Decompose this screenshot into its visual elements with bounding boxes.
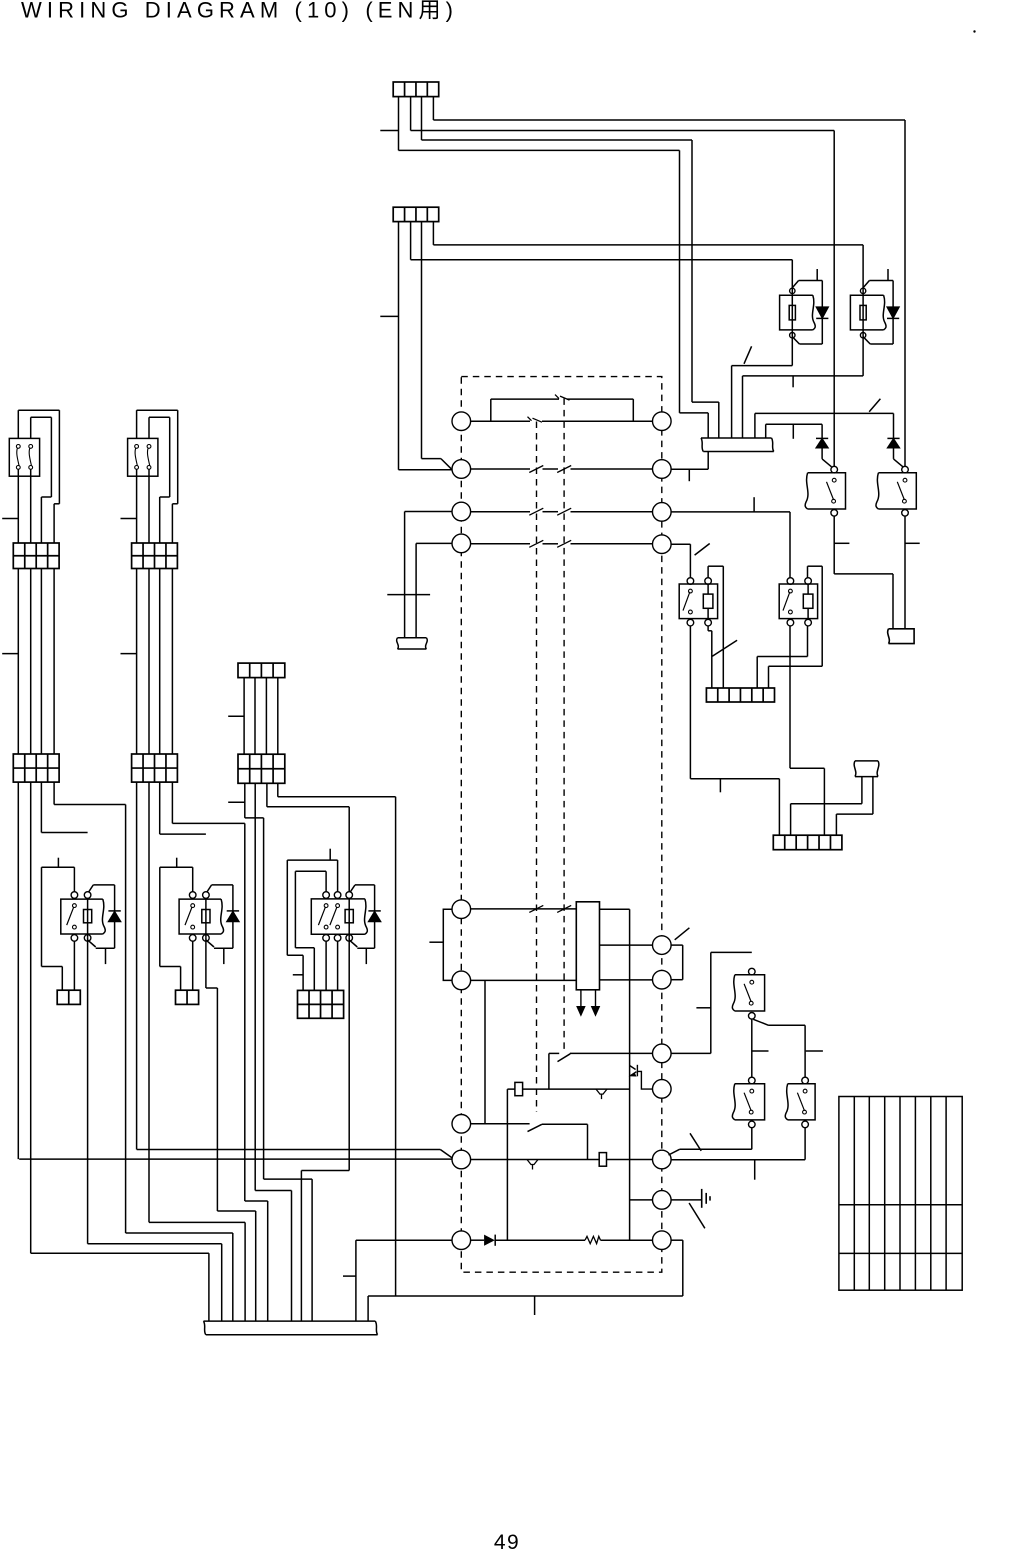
wire CN-A pin1 to bus (680, 412, 709, 414)
tick on K5 feed (806, 1050, 823, 1052)
wire row2 c (571, 468, 653, 470)
wire flag F2 left to CN-E (790, 804, 792, 836)
wire V1 to node P10R (630, 1199, 653, 1201)
switch TS2 contact arm (147, 448, 149, 465)
stray dot (973, 30, 975, 32)
node P3R (653, 503, 672, 522)
wire relay KB2 diode hook top (207, 885, 212, 892)
wire relay RB out down (862, 339, 864, 376)
wire g3 pin4 run (278, 796, 396, 798)
switch K3 bottom terminal (749, 1013, 756, 1020)
wire relay KB2 switch out (192, 941, 194, 990)
tick left of group2 lower (121, 653, 137, 655)
wire group2 hook B left (148, 417, 150, 438)
switch K3 lower contact (749, 1001, 753, 1005)
wire CN-B pin4 down to relay RB (862, 245, 864, 288)
wire group2 pin1 feed diagonal (440, 1150, 452, 1159)
wire flag F2 left lead (861, 777, 863, 804)
relay RC upper contact (689, 589, 693, 593)
relay KB2 lower contact (191, 925, 195, 929)
wire relay KB2 diode hook bottom (206, 940, 214, 947)
diode D1 cathode bar (816, 437, 828, 439)
thermal switch TS1 body (9, 438, 39, 476)
wire group1 hook A right (58, 410, 60, 504)
wire g2 pin3 drop (159, 782, 161, 834)
node P8R (653, 1080, 672, 1099)
wire CN-A pin4 run (433, 119, 905, 121)
switch K2 contact arm (897, 482, 904, 500)
wire relay RC switch out run (690, 778, 779, 780)
wire CN-A pin3 down (691, 140, 693, 402)
wire base drive (507, 1088, 629, 1090)
wire row4 a (471, 543, 530, 545)
bus bar B2 (204, 1321, 378, 1335)
wire KB3 loop1 bottom (295, 947, 314, 949)
diode D-RB (887, 307, 899, 318)
relay KB2 coil through lead (205, 898, 207, 938)
wire row3 c (571, 511, 653, 513)
relay KB3 coil through lead (348, 898, 350, 938)
wire KB3 diode hook bottom (349, 940, 357, 947)
switch TS2 contact top (135, 445, 139, 449)
wire link P5R-P6R (682, 945, 684, 980)
relay RC body (679, 584, 717, 619)
diode D-KB2 cathode bar (227, 910, 239, 912)
wire group2 hook B top (149, 416, 170, 418)
wire relay RC coil loop run (708, 565, 723, 567)
relay KB3 switch2 bottom terminal (334, 935, 341, 942)
diode D-KB2 (227, 911, 239, 921)
relay RA bottom terminal (790, 333, 795, 338)
wire g1 pin3 to coil (41, 832, 87, 834)
wire relay RB top hook (869, 280, 893, 282)
tick across flag F3 leads (387, 594, 430, 596)
wire g3 pin1 long drop (263, 818, 265, 1179)
tick at CN-A pin1 (380, 130, 398, 132)
wire relay RA out down (791, 339, 793, 366)
diode D2 cathode bar (887, 437, 899, 439)
tick above relay KB1 (57, 858, 59, 868)
switch TS2 contact bottom (147, 466, 151, 470)
wire node P10R to ground (671, 1199, 702, 1201)
wire relay RC coil loop up (707, 566, 709, 578)
wire KB3 loop1 up (325, 871, 327, 891)
thermal switch TS2 body (128, 438, 158, 476)
wire group1 hook A left (17, 410, 19, 438)
wire group1 mid drop (17, 569, 19, 755)
wire g3 mid drop (254, 678, 256, 755)
wire group2 hook A jog (172, 503, 177, 505)
wire vertical V1 (629, 909, 631, 1240)
switch K5 upper contact (803, 1089, 807, 1093)
wire relay RC feed down (689, 544, 691, 578)
wire KB3 loop1 left (294, 871, 296, 948)
relay KB2 coil (202, 910, 210, 923)
switch K5 top terminal (802, 1077, 809, 1084)
wire relay KB2 loop bottom (160, 966, 181, 968)
wire flag F2 right lead (872, 777, 874, 815)
tick on switch K2 out (905, 542, 920, 544)
connector CN-KB3 (298, 990, 344, 1018)
wire flag F2 right run (836, 813, 873, 815)
wire KB2 coil step (217, 1210, 255, 1212)
wire g3 pin1 jog (245, 817, 264, 819)
relay RD coil top lead (807, 584, 809, 594)
node P9L (452, 1231, 471, 1250)
wire KB1 coil down (87, 938, 89, 1244)
wire CN-A pin3 to bus (692, 401, 719, 403)
wire relay RC switch out (689, 626, 691, 779)
wire group1 mid drop (30, 569, 32, 755)
node P5R (653, 936, 672, 955)
wire g1 pin2 long drop (30, 782, 32, 1253)
node P2L (452, 460, 471, 479)
wire g1 pin1 long drop (17, 782, 19, 1159)
wire relay RD coil to CN-D (768, 666, 770, 688)
tick above relay RA diode (816, 269, 818, 281)
switch K5 bottom terminal (802, 1121, 809, 1128)
wire P5R stub (671, 944, 683, 946)
diode D2 lead (893, 448, 895, 459)
connector CN-2a (132, 543, 178, 569)
node P4R (653, 535, 672, 554)
wire to switch K3 riser (710, 952, 712, 1053)
relay RB coil (860, 305, 866, 320)
diode D-KB1 cathode bar (108, 910, 120, 912)
tick below bus output (688, 469, 690, 481)
bus bar B1 (701, 438, 774, 452)
stub on bracket (429, 941, 443, 943)
switch SW1a break (528, 417, 543, 423)
wire CN-A pin1 run (399, 149, 680, 151)
diode D-KB3 lead (374, 885, 376, 948)
switch mark on P5L wire 2 (557, 905, 571, 912)
tick below RC out run (719, 779, 721, 793)
wire g3 mid drop (265, 678, 267, 755)
wire KB3 loop1 top (295, 870, 326, 872)
tick on switch K1 out (834, 542, 849, 544)
wire g3 pin3 drop (266, 783, 268, 807)
wire diode D1 diagonal (822, 459, 831, 467)
wire relay KB1 loop bottom (42, 966, 63, 968)
relay KB3 contact1 upper (324, 904, 328, 908)
wire row4 c (571, 543, 653, 545)
connector flag F1 (888, 629, 914, 644)
wire row1 loop right (632, 399, 634, 421)
wire g3 pin2 step (255, 1190, 291, 1192)
relay RA coil (789, 305, 795, 320)
tick below relay RB out (792, 376, 794, 387)
relay RC coil top terminal (705, 578, 712, 585)
relay KB3 contact2 upper (336, 904, 340, 908)
wire resistor to node P11R (601, 1239, 653, 1241)
wire bus to diode D1 (766, 423, 822, 425)
wire K4 out (751, 1128, 753, 1150)
arrow heater lead 1 (577, 990, 585, 1016)
wire switch SW5 right (570, 1052, 653, 1054)
wire KB3 coil to bus (300, 1171, 302, 1322)
wire block to node P6R (600, 979, 653, 981)
relay KB3 switch1 bottom terminal (323, 935, 330, 942)
diode D1 lead (821, 448, 823, 459)
connector mark on base wire (596, 1089, 607, 1094)
relay KB3 body (311, 899, 367, 934)
relay RD switch bottom terminal (787, 619, 794, 626)
wire P11R down (682, 1240, 684, 1296)
diode D-RB lead (892, 281, 894, 345)
diode D-RA lead (821, 281, 823, 345)
switch K5 lower contact (803, 1110, 807, 1114)
tick at CN-B pin1 (380, 315, 398, 317)
wire group1 hook A jog (54, 503, 59, 505)
wire group2 pin1 feed (137, 1149, 441, 1151)
wire CN-A pin2 down to switch K1 (833, 131, 835, 467)
wire g2 pin2 to bus (244, 1222, 246, 1321)
wire bus entry 3 (731, 366, 733, 439)
relay KB1 coil through lead (87, 898, 89, 938)
switch K2 upper contact (903, 478, 907, 482)
wire g1 pin4 long drop (125, 805, 127, 1234)
connector CN-1a (13, 543, 59, 569)
wire relay RD coil loop up (807, 566, 809, 578)
wire row1 loop top left (491, 398, 559, 400)
wire switch K1 out run (834, 573, 893, 575)
switch row2 contact 2 (557, 466, 571, 473)
wire row1 right (542, 420, 653, 422)
wire group2 hook B right (169, 417, 171, 497)
relay RC lower contact (689, 610, 693, 614)
relay RD upper contact (789, 589, 793, 593)
wire CN-A pin2 run (411, 130, 835, 132)
wire relay RC coil out jog (708, 630, 712, 632)
switch TS1 contact top (29, 445, 33, 449)
wire CN-B pin2 run (411, 259, 793, 261)
wire relay RB bottom hook diagonal (863, 337, 870, 344)
wire g1 pin4 drop (53, 782, 55, 804)
wire group1 hook A top (18, 409, 59, 411)
wire K3 to K4 (751, 1019, 753, 1077)
tick above KB3 (329, 849, 331, 860)
wire K5 out run (671, 1159, 805, 1161)
wire P8R diagonal (669, 1149, 680, 1155)
wire relay RD switch out (789, 626, 791, 768)
wire relay KB1 loop down (61, 967, 63, 991)
node P8L (452, 1150, 471, 1169)
switch row2 contact 1 (529, 466, 543, 473)
wire KB1 coil step (88, 1243, 222, 1245)
wire P9L to bus (355, 1240, 357, 1321)
connector CN-E (773, 835, 842, 850)
switch K2 top terminal (902, 466, 909, 473)
switch K2 bottom terminal (902, 510, 909, 517)
switch K4 bottom terminal (749, 1121, 756, 1128)
relay KB1 body (61, 899, 105, 934)
wire KB3 coil step (301, 1170, 349, 1172)
switch K3 top terminal (749, 968, 756, 975)
relay KB1 upper contact (73, 904, 77, 908)
wire g1 pin2 to bus (208, 1253, 210, 1321)
wire K3 branch run (769, 1024, 806, 1026)
wire group2 hook A left (136, 410, 138, 438)
relay KB3 coil (345, 910, 353, 923)
wire diode D1 feed down (821, 424, 823, 438)
switch mark on P5L wire 1 (529, 905, 543, 912)
wire relay KB2 loop top (160, 866, 193, 868)
node P2R (653, 460, 672, 479)
wire group2 hook B jog (160, 496, 170, 498)
wire diode D2 feed down (893, 413, 895, 438)
switch row3 contact 1 (529, 508, 543, 515)
relay KB3 contact2 lower (336, 925, 340, 929)
wire row1 loop left (490, 399, 492, 421)
relay RC coil bottom lead (707, 608, 709, 618)
relay RD coil (803, 594, 813, 608)
switch K2 lower contact (903, 499, 907, 503)
wire g2 pin2 long drop (148, 782, 150, 1222)
switch K1 top terminal (831, 466, 838, 473)
wire row1 left (471, 420, 530, 422)
wire switch SW5 left (549, 1052, 559, 1054)
diode D-KB1 (108, 911, 120, 921)
wire CN-A pin2 drop (410, 97, 412, 131)
relay RD coil bottom terminal (805, 619, 812, 626)
relay KB2 switch bottom terminal (189, 935, 196, 942)
mechanical link bar 1 (536, 422, 538, 1113)
wire KB1 coil to bus (221, 1244, 223, 1321)
relay KB2 switch top terminal (189, 892, 196, 899)
wire relay KB1 loop up (73, 867, 75, 892)
wire bus entry 5 (754, 413, 756, 438)
switch K1 upper contact (832, 478, 836, 482)
wire relay RA out run (732, 365, 793, 367)
wire row3 b (543, 511, 559, 513)
tick left of group3 (228, 715, 244, 717)
wire node P9L to diode D3 (471, 1239, 485, 1241)
relay KB2 body (179, 899, 223, 934)
wire KB3 coil down (348, 938, 350, 1171)
tick below K5 out run (754, 1160, 756, 1180)
wire group1 hook B right (50, 417, 52, 497)
wire bus entry 2 (718, 402, 720, 438)
wire bus entry 6 (765, 424, 767, 438)
arrow heater lead 2 (592, 990, 600, 1016)
wire P5L to block (471, 908, 577, 910)
leader slash on D2 feed (869, 399, 880, 412)
wire group1 hook A down (53, 504, 55, 543)
node P10R (653, 1191, 672, 1210)
wire relay RA bottom hook diagonal (792, 337, 799, 344)
wire switch feed riser (548, 1053, 550, 1089)
wire switch K1 out (833, 516, 835, 574)
wire g3 pin3 to coil (267, 806, 349, 808)
resistor R1 (585, 1236, 601, 1243)
switch TS2 contact bottom (135, 466, 139, 470)
wire g3 pin4 long drop (395, 797, 397, 1296)
leader slash at node P5R (675, 928, 690, 940)
wire switch TS1 drop (17, 469, 19, 543)
wire group2 mid drop (136, 569, 138, 755)
wire relay KB1 loop top (42, 866, 75, 868)
relay RB top terminal (860, 288, 865, 293)
wire row2 a (471, 468, 530, 470)
wire relay KB1 diode hook bottom (88, 940, 96, 947)
connector flag F2 (854, 761, 879, 777)
switch TS2 contact arm (135, 448, 137, 465)
switch K1 bottom terminal (831, 510, 838, 517)
wire CN-B pin4 run (433, 244, 863, 246)
wire return run (368, 1295, 683, 1297)
transistor Q1 (630, 1065, 653, 1089)
switch SW6 contact slash (528, 1124, 542, 1131)
wire relay RD feed down (789, 512, 791, 578)
relay KB2 upper contact (191, 904, 195, 908)
dashed enclosure (461, 377, 662, 1273)
diode D1 (816, 439, 828, 448)
wire relay KB1 diode top run (93, 884, 114, 886)
wire KB2 coil jog (206, 987, 218, 989)
wire CN-A pin1 down (679, 150, 681, 413)
relay KB2 contact arm (185, 907, 192, 925)
relay KB1 coil (84, 910, 92, 923)
tick below relay KB1 (105, 948, 107, 964)
wire group2 hook A right (177, 410, 179, 504)
relay RD contact arm (783, 592, 790, 611)
node P7R (653, 1044, 672, 1063)
wire group1 hook B top (31, 416, 52, 418)
wire g2 pin4 drop (171, 782, 173, 823)
wire flag F2 left run (791, 803, 862, 805)
wire CN-B pin1 drop (398, 222, 400, 470)
relay RA body (780, 295, 816, 330)
wire CN-A pin4 drop (432, 97, 434, 120)
node P11R (653, 1231, 672, 1250)
wire group2 hook B down (159, 497, 161, 543)
terminal block TB (839, 1097, 962, 1291)
relay RC coil (703, 594, 713, 608)
fuse on base drive wire (515, 1082, 523, 1095)
wire CN-A pin3 drop (421, 97, 423, 140)
wire row2 b (543, 468, 559, 470)
node P7L (452, 1115, 471, 1134)
switch K4 top terminal (749, 1077, 756, 1084)
node P6L (452, 971, 471, 990)
wire CN-A pin1 drop (398, 97, 400, 151)
wire KB3 loop2 left (286, 860, 288, 955)
wire KB2 coil long drop (216, 988, 218, 1211)
tick below KB3 (365, 948, 367, 964)
wire relay RD coil loop down (821, 566, 823, 666)
relay RD lower contact (789, 610, 793, 614)
relay KB2 coil top terminal (203, 892, 210, 899)
relay KB1 switch top terminal (71, 892, 78, 899)
wire node P4L out (416, 542, 452, 544)
relay KB1 lower contact (73, 925, 77, 929)
relay RC switch bottom terminal (687, 619, 694, 626)
leader slash near relay RC (695, 544, 710, 556)
relay KB2 coil bottom terminal (203, 935, 210, 942)
switch TS1 contact arm (29, 448, 31, 465)
tick on K4 feed (752, 1050, 768, 1052)
switch row3 contact 2 (557, 508, 571, 515)
wire relay RC switch to CN-E (778, 779, 780, 836)
wire g3 mid drop (277, 678, 279, 755)
connector CN-KB1 (57, 990, 80, 1004)
node P3L (452, 502, 471, 521)
connector CN-B (393, 207, 439, 221)
wire group2 mid drop (148, 569, 150, 755)
switch TS1 contact top (16, 445, 20, 449)
switch K5 contact arm (797, 1093, 804, 1111)
